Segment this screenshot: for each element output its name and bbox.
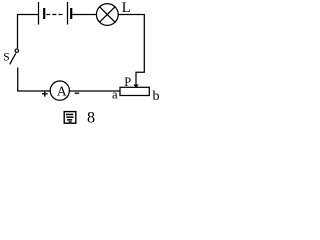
- svg-text:S: S: [3, 52, 9, 64]
- svg-text:P: P: [124, 75, 131, 89]
- svg-text:a: a: [112, 88, 118, 102]
- svg-text:L: L: [122, 0, 131, 16]
- svg-text:8: 8: [87, 108, 95, 126]
- svg-text:A: A: [57, 84, 67, 99]
- svg-text:b: b: [153, 89, 160, 104]
